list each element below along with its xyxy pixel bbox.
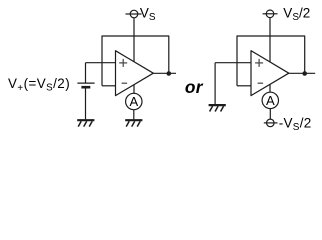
ammeter A (right): [262, 92, 278, 108]
U1 minus sign: [122, 82, 128, 84]
wire inverting input U2: [237, 85, 251, 87]
svg-text:A: A: [266, 93, 275, 108]
wire inverting input U1: [102, 85, 116, 87]
wire non-inverting input U2: [215, 62, 251, 64]
terminal VS: [130, 10, 138, 18]
wire battery to ground: [85, 89, 87, 120]
wire VS terminal tick (left circuit): [126, 13, 142, 15]
terminal VS/2: [266, 10, 274, 18]
wire output U1: [153, 72, 176, 74]
svg-text:A: A: [129, 94, 138, 109]
wire feedback loop U1 (output to inverting input): [102, 36, 169, 86]
wire output U2: [289, 72, 315, 74]
ammeter A (left): [126, 93, 142, 109]
wire battery top: [85, 63, 87, 83]
wire U1 bottom to ammeter: [133, 85, 135, 94]
op-amp U1: [116, 51, 154, 96]
wire ammeter to ground: [133, 110, 135, 120]
wire -VS/2 terminal tick: [264, 122, 278, 124]
wire U2 bottom to ammeter: [269, 84, 271, 92]
battery V+ negative plate: [81, 86, 90, 89]
U2 minus sign: [258, 82, 264, 84]
wire feedback loop U2 (output to inverting input): [237, 36, 305, 86]
node U1 output junction: [167, 71, 172, 76]
node U2 output junction: [302, 71, 307, 76]
U1 plus sign: [119, 59, 127, 67]
battery V+ positive plate: [77, 82, 94, 84]
wire ammeter to -VS/2 terminal: [269, 109, 271, 120]
terminal -VS/2: [267, 119, 275, 127]
U2 plus sign: [255, 59, 263, 67]
wire supply VS to op-amp U1 top: [133, 18, 135, 62]
ground (left ammeter): [125, 120, 142, 126]
op-amp U2: [251, 51, 289, 96]
wire supply VS/2 to op-amp U2 top: [269, 18, 271, 62]
wire VS/2 terminal tick (right circuit): [263, 13, 278, 15]
ground (battery): [77, 120, 94, 126]
ground (U2 non-inverting input): [209, 105, 226, 111]
wire non-inverting input U1: [86, 62, 116, 64]
wire non-inverting input to ground: [214, 63, 216, 104]
svg-text:or: or: [185, 77, 204, 97]
